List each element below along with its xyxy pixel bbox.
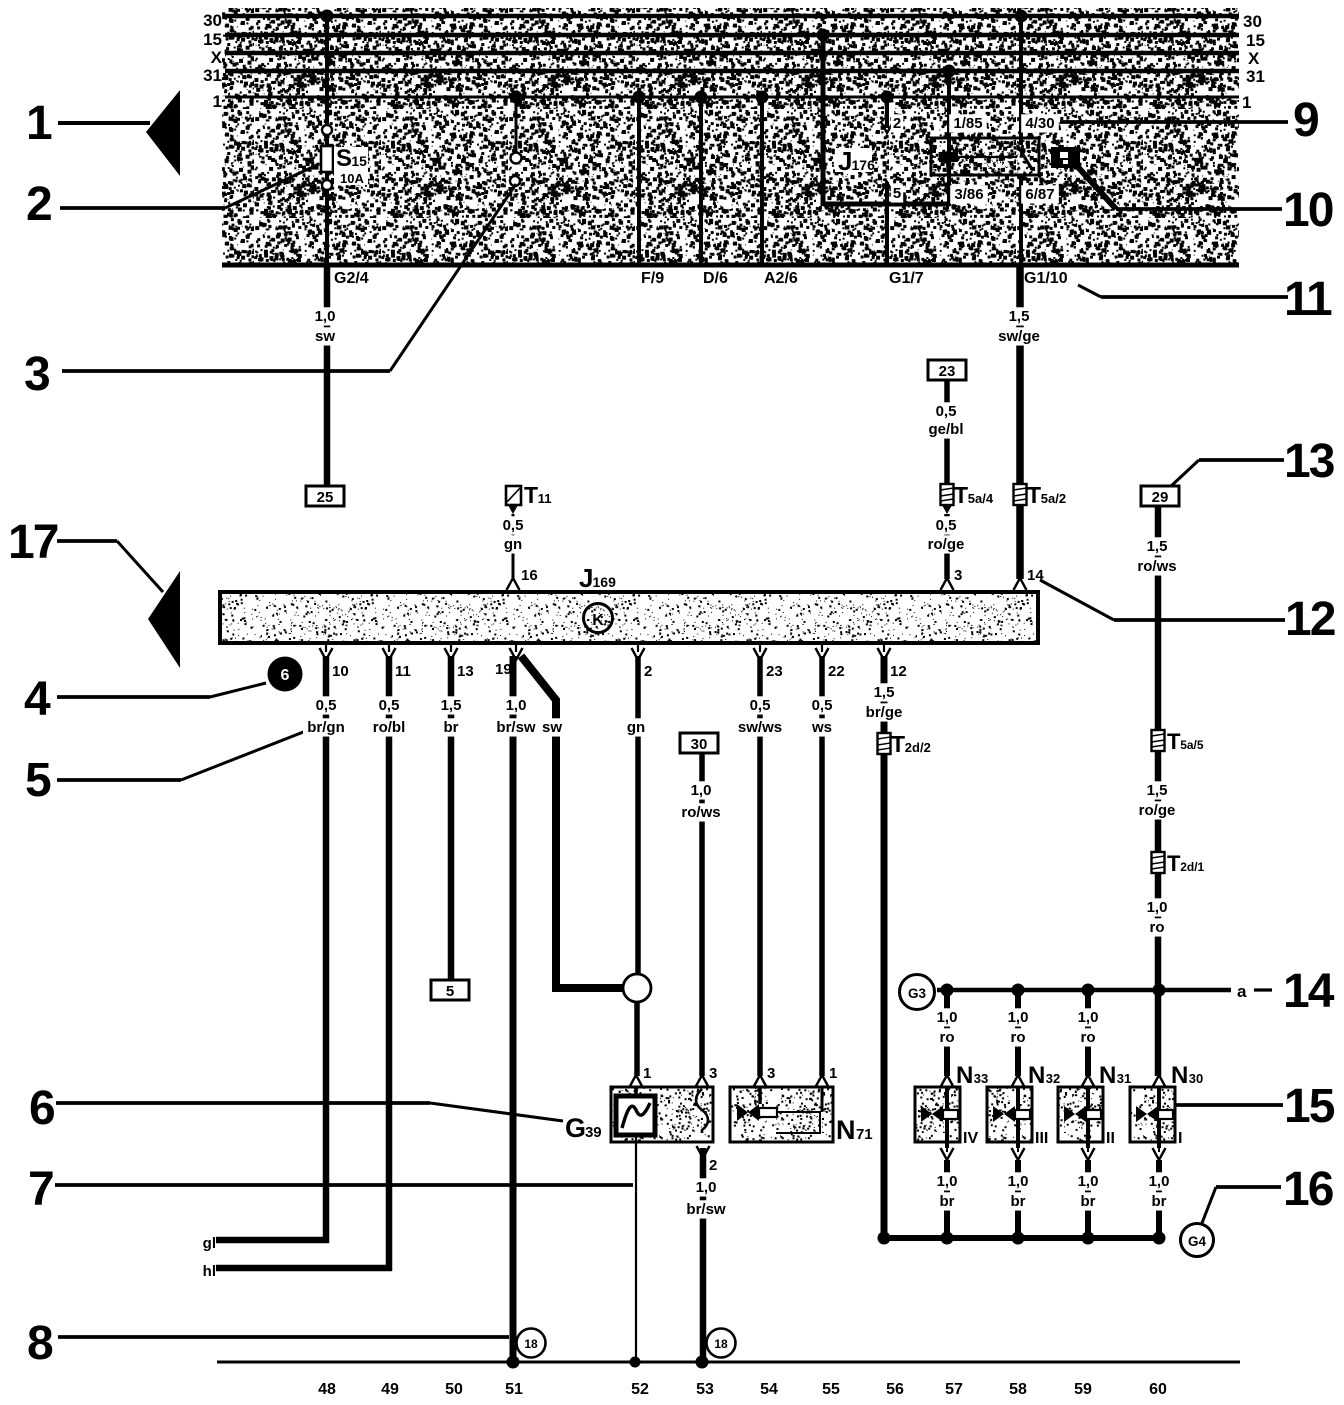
injector N33 cylinder 4 (944, 990, 950, 1076)
svg-text:1,5: 1,5 (1147, 538, 1168, 555)
svg-text:br/sw: br/sw (496, 719, 536, 736)
svg-text:3: 3 (767, 1065, 775, 1082)
svg-text:X: X (1248, 49, 1260, 68)
pin label 1/85 (949, 114, 987, 132)
svg-text:6: 6 (281, 667, 290, 684)
svg-text:gn: gn (627, 719, 645, 736)
earth reference G4 (1181, 1224, 1214, 1257)
svg-text:59: 59 (1074, 1381, 1092, 1398)
idle stabilisation valve N71 housing (730, 1087, 833, 1142)
junction on bus 1 at A2/6 (756, 91, 769, 104)
wire bus1 to plug connector (515, 97, 518, 153)
svg-text:ro/ge: ro/ge (928, 536, 965, 553)
relay J176 bracket (823, 202, 950, 207)
wire bus31 to relay pin 1/85 (947, 71, 951, 153)
junction on bus 1 at plug connector (510, 91, 523, 104)
svg-text:54: 54 (760, 1381, 778, 1398)
svg-text:II: II (1106, 1130, 1115, 1147)
svg-text:5: 5 (446, 983, 454, 1000)
svg-text:30: 30 (203, 11, 222, 30)
svg-text:15: 15 (351, 153, 367, 169)
svg-text:G1/10: G1/10 (1024, 270, 1068, 287)
svg-text:0,5: 0,5 (812, 697, 833, 714)
svg-text:0,5: 0,5 (316, 697, 337, 714)
svg-text:1,5: 1,5 (1009, 308, 1030, 325)
pin label 3/86 (950, 185, 988, 203)
svg-text:1,5: 1,5 (874, 684, 895, 701)
wire T5a/2 to J169 pin 14 (1016, 505, 1024, 579)
bus wire 30 (225, 14, 1239, 19)
label J176 (835, 148, 872, 172)
svg-text:IV: IV (963, 1130, 978, 1147)
svg-text:sw: sw (542, 719, 562, 736)
dash panel strip bottom edge (222, 263, 1239, 268)
junction G39 earth at rail (696, 1356, 709, 1369)
svg-text:60: 60 (1149, 1381, 1167, 1398)
svg-text:T: T (1027, 482, 1041, 508)
bus wire 15 (225, 33, 1239, 38)
svg-text:T: T (524, 482, 538, 508)
svg-text:39: 39 (585, 1124, 602, 1141)
svg-text:br: br (940, 1193, 955, 1210)
injector N30 cylinder 1 (1153, 1075, 1166, 1087)
pin 16 of J169 (507, 578, 520, 590)
svg-text:1: 1 (213, 92, 222, 111)
junction rail a N33 (941, 984, 954, 997)
svg-text:ro/ge: ro/ge (1139, 802, 1176, 819)
control unit J169 body (220, 592, 1038, 643)
svg-text:52: 52 (631, 1381, 649, 1398)
junction on bus 30 at S15 (321, 10, 334, 23)
connector T5a/4 (941, 484, 954, 505)
svg-text:10A: 10A (340, 171, 364, 186)
wire 0,5 ge/bl (944, 380, 950, 484)
plate 30 (680, 733, 718, 753)
callout 13 (1170, 460, 1199, 487)
svg-text:30: 30 (1243, 12, 1262, 31)
pin label 5 of J176 (881, 182, 894, 194)
injector supply rail a (937, 988, 1231, 993)
svg-text:N: N (1099, 1062, 1116, 1089)
svg-text:11: 11 (538, 491, 552, 506)
junction sensor wire at earth rail (630, 1357, 641, 1368)
svg-text:gl: gl (203, 1235, 216, 1252)
junction earth rail N32 (1012, 1232, 1025, 1245)
wire 1,0 br/sw G39 to track 53 (700, 1148, 707, 1362)
pin 12 of J169 (883, 643, 885, 652)
fuse S15 upper contact (322, 125, 332, 135)
pin 11 of J169 (388, 643, 390, 652)
wire 1,5 sw/ge from G1/10 (1016, 265, 1024, 484)
wire J176 pin 5 to terminal G1/7 (885, 182, 889, 265)
junction rail a N32 (1012, 984, 1025, 997)
svg-text:1,0: 1,0 (1149, 1173, 1170, 1190)
lambda probe plug connection (623, 974, 651, 1002)
svg-text:T: T (1167, 729, 1181, 754)
svg-text:169: 169 (593, 574, 617, 590)
pin 3 of J169 (941, 578, 954, 590)
svg-text:br: br (1152, 1193, 1167, 1210)
fuse S15 (321, 146, 333, 172)
svg-text:S: S (336, 145, 352, 172)
svg-text:51: 51 (505, 1381, 523, 1398)
connector T5a/2 (1014, 484, 1027, 505)
wire 0,5 ro/bl pin11 to hl (386, 656, 393, 1271)
wire 1,0 br/sw pin19 to track 51 (510, 656, 517, 1362)
relay J176 switch blade (1017, 145, 1032, 169)
svg-text:ro: ro (1081, 1029, 1096, 1046)
svg-text:17: 17 (8, 516, 58, 569)
svg-text:ro/ws: ro/ws (681, 804, 720, 821)
svg-text:31: 31 (203, 66, 222, 85)
svg-text:a: a (1237, 982, 1247, 1001)
svg-text:br/ge: br/ge (866, 704, 903, 721)
wire bus1 to terminal A2/6 (760, 97, 764, 265)
svg-text:N: N (1028, 1062, 1045, 1089)
relay J176 coil link (958, 156, 1017, 158)
junction on bus 1 at G1/7 (881, 91, 894, 104)
svg-text:X: X (211, 48, 223, 67)
svg-text:3/86: 3/86 (954, 186, 983, 203)
svg-text:9: 9 (1293, 94, 1320, 147)
connection marker (item 10) (1051, 147, 1080, 168)
svg-text:III: III (1035, 1130, 1048, 1147)
svg-text:1: 1 (1242, 93, 1251, 112)
svg-text:5a/2: 5a/2 (1041, 491, 1066, 506)
svg-text:2d/2: 2d/2 (905, 740, 931, 755)
pin 3 of N71 (754, 1075, 767, 1087)
svg-text:D/6: D/6 (703, 270, 728, 287)
svg-text:1/85: 1/85 (953, 115, 982, 132)
marker leader line (1077, 166, 1116, 209)
svg-text:ro: ro (1150, 919, 1165, 936)
svg-text:23: 23 (939, 363, 956, 380)
relay J176 housing (931, 138, 1039, 175)
wire 0,5 br/gn pin10 to gl (323, 656, 330, 1243)
svg-text:15: 15 (203, 30, 222, 49)
junction on bus 31 feeding J176 pin 1/85 (943, 65, 956, 78)
svg-text:11: 11 (1284, 273, 1332, 326)
svg-text:2: 2 (893, 115, 901, 132)
svg-text:0,5: 0,5 (750, 697, 771, 714)
svg-text:30: 30 (691, 736, 708, 753)
svg-text:br/gn: br/gn (307, 719, 345, 736)
marker 6 on J169 (268, 657, 303, 692)
svg-text:23: 23 (766, 663, 783, 680)
wire relay pin 3/86 to bracket (947, 162, 951, 206)
pin 19 of J169 (515, 643, 517, 652)
svg-text:J: J (579, 563, 593, 593)
svg-text:2: 2 (26, 178, 53, 231)
pin 10 of J169 (325, 643, 327, 652)
wire 1,5 ro/ge (1155, 751, 1162, 852)
svg-text:2: 2 (644, 663, 652, 680)
svg-text:ro: ro (1011, 1029, 1026, 1046)
current track rail (217, 1361, 1240, 1364)
wire br/ge to injector earth rail (881, 754, 888, 1238)
wire 1,5 br pin13 to plate 5 (448, 656, 455, 980)
valve symbol in N71 (758, 1087, 762, 1104)
pin label 6/87 (1021, 185, 1059, 203)
wire 1,0 sw from G2/4 to plate 25 (324, 265, 331, 488)
svg-text:13: 13 (1284, 435, 1334, 488)
pin label 4/30 (1021, 114, 1059, 132)
svg-text:I: I (1178, 1130, 1182, 1147)
svg-text:sw/ge: sw/ge (998, 328, 1040, 345)
wire 1,5 ro/ws (1155, 506, 1162, 730)
svg-text:71: 71 (856, 1126, 873, 1143)
dash panel connector strip (222, 8, 1239, 267)
wire sw heater branch (521, 656, 624, 988)
svg-text:58: 58 (1009, 1381, 1027, 1398)
svg-text:sw: sw (315, 328, 335, 345)
heater element in G39 (696, 1089, 708, 1133)
plate 23 (928, 360, 966, 380)
svg-text:3: 3 (24, 348, 51, 401)
svg-text:2d/1: 2d/1 (1180, 860, 1204, 874)
connector T2d/1 (1152, 852, 1165, 873)
wire bus1 to terminal F/9 (637, 97, 641, 265)
pin 3 of G39 (696, 1075, 709, 1087)
svg-text:ro/ws: ro/ws (1137, 558, 1176, 575)
relay J176 supply wire from bus 15 (821, 35, 826, 206)
junction on bus 30 feeding J176 pin 4/30 (1015, 10, 1028, 23)
svg-text:57: 57 (945, 1381, 963, 1398)
svg-text:18: 18 (714, 1337, 728, 1351)
svg-text:3: 3 (954, 567, 962, 584)
svg-text:32: 32 (1046, 1071, 1060, 1086)
svg-text:18: 18 (524, 1337, 538, 1351)
svg-text:1: 1 (26, 97, 53, 150)
svg-text:sw/ws: sw/ws (738, 719, 782, 736)
svg-text:1,0: 1,0 (1147, 899, 1168, 916)
svg-text:176: 176 (852, 157, 876, 173)
pin 13 of J169 (450, 643, 452, 652)
svg-text:0,5: 0,5 (503, 517, 524, 534)
callout 10 (1116, 207, 1282, 211)
svg-text:2: 2 (709, 1157, 717, 1174)
svg-text:0,5: 0,5 (379, 697, 400, 714)
svg-text:0,5: 0,5 (936, 517, 957, 534)
bus wire X (225, 51, 1239, 56)
svg-text:ro: ro (940, 1029, 955, 1046)
svg-text:30: 30 (1189, 1071, 1203, 1086)
bus wire 1 (225, 96, 1239, 99)
svg-text:6/87: 6/87 (1025, 186, 1054, 203)
svg-text:br: br (1011, 1193, 1026, 1210)
svg-text:56: 56 (886, 1381, 904, 1398)
plug connector upper half (511, 153, 522, 164)
callout 12 (1040, 580, 1114, 620)
svg-text:31: 31 (1117, 1071, 1131, 1086)
svg-text:G: G (565, 1113, 586, 1143)
injector earth rail (884, 1235, 1162, 1241)
pin 23 of J169 (759, 643, 761, 652)
svg-text:1,0: 1,0 (1008, 1009, 1029, 1026)
earth plate 25 (306, 486, 344, 506)
svg-text:12: 12 (890, 663, 907, 680)
svg-text:G2/4: G2/4 (334, 270, 369, 287)
svg-text:5a/4: 5a/4 (968, 491, 994, 506)
svg-text:25: 25 (317, 489, 334, 506)
joint 18 on G39 earth wire (707, 1329, 736, 1358)
wire 0,5 ro/ge to J169 pin 3 (944, 514, 950, 579)
lambda probe G39 housing (611, 1087, 713, 1142)
svg-text:15: 15 (1284, 1080, 1335, 1133)
svg-text:53: 53 (696, 1381, 714, 1398)
svg-text:49: 49 (381, 1381, 399, 1398)
svg-text:1,0: 1,0 (506, 697, 527, 714)
svg-text:5: 5 (25, 754, 52, 807)
wire 0,5 ws pin22 to N71 (819, 656, 825, 1076)
svg-text:1,0: 1,0 (315, 308, 336, 325)
wire relay pin 6/87 to terminal G1/10 (1019, 175, 1023, 265)
svg-text:N: N (836, 1115, 856, 1145)
wire fuse S15 to terminal G2/4 (325, 172, 329, 265)
svg-text:16: 16 (1283, 1163, 1333, 1216)
joint 18 on pin19 wire (517, 1329, 546, 1358)
svg-text:N: N (1171, 1062, 1188, 1089)
injector N32 cylinder 3 (1015, 990, 1021, 1076)
relay J176 coil (939, 152, 958, 162)
wire 0,5 gn to J169 pin 16 (512, 514, 515, 579)
junction rail a N31 (1082, 984, 1095, 997)
wire gn pin2 to lambda probe (635, 656, 641, 975)
svg-text:G4: G4 (1188, 1234, 1207, 1249)
svg-text:gn: gn (504, 536, 522, 553)
camshaft reference G3 (900, 975, 935, 1010)
callout 14 node a (1165, 988, 1231, 992)
svg-text:31: 31 (1246, 67, 1265, 86)
svg-text:1,0: 1,0 (1008, 1173, 1029, 1190)
pin label 2 of J176 (891, 114, 903, 132)
svg-text:1,0: 1,0 (1078, 1173, 1099, 1190)
K-diagnosis symbol (584, 604, 613, 633)
callout 16 (1216, 1185, 1281, 1189)
connector T11 (506, 486, 521, 505)
wire bus30 to fuse S15 (325, 16, 329, 146)
svg-text:10: 10 (1283, 184, 1333, 237)
svg-text:14: 14 (1027, 567, 1044, 584)
svg-text:1: 1 (643, 1065, 651, 1082)
svg-text:ws: ws (811, 719, 832, 736)
svg-text:1,0: 1,0 (691, 782, 712, 799)
sensor signal wire (635, 1135, 637, 1362)
junction earth rail N31 (1082, 1232, 1095, 1245)
junction on bus 15 feeding J176 (817, 29, 830, 42)
wire bus1 to J176 pin 2 (885, 97, 889, 128)
fuse S15 lower contact (322, 180, 332, 190)
svg-text:T: T (954, 482, 968, 508)
callout 9 (1060, 120, 1288, 124)
pin 2 of G39 (697, 1146, 710, 1158)
svg-text:11: 11 (395, 663, 411, 680)
svg-text:48: 48 (318, 1381, 336, 1398)
pin 22 of J169 (821, 643, 823, 652)
lambda sensor cell (634, 1087, 638, 1098)
svg-text:F/9: F/9 (641, 270, 664, 287)
svg-text:T: T (891, 731, 905, 757)
plate 5 (431, 980, 469, 1000)
svg-text:1: 1 (829, 1065, 837, 1082)
svg-text:1,0: 1,0 (1078, 1009, 1099, 1026)
svg-text:5a/5: 5a/5 (1180, 738, 1204, 752)
svg-text:22: 22 (828, 663, 845, 680)
svg-text:50: 50 (445, 1381, 463, 1398)
svg-text:6: 6 (29, 1082, 56, 1135)
svg-text:29: 29 (1152, 489, 1169, 506)
svg-text:1,0: 1,0 (937, 1009, 958, 1026)
junction earth rail pin12 wire (878, 1232, 891, 1245)
callout 11 (1078, 285, 1101, 297)
callout 15 (1176, 1103, 1283, 1107)
wire 1,0 ro to N30 (1155, 873, 1162, 1076)
junction rail a N30 (1153, 984, 1166, 997)
svg-text:4/30: 4/30 (1025, 115, 1054, 132)
svg-text:10: 10 (332, 663, 349, 680)
svg-text:ge/bl: ge/bl (928, 421, 963, 438)
pin 1 of G39 (630, 1075, 643, 1087)
pin 1 of N71 (816, 1075, 829, 1087)
pin 2 of J169 (637, 643, 639, 652)
svg-text:55: 55 (822, 1381, 840, 1398)
junction earth rail N30 (1153, 1232, 1166, 1245)
injector N31 cylinder 2 (1085, 990, 1091, 1076)
svg-text:br/sw: br/sw (686, 1201, 726, 1218)
wire 1,0 ro/ws to G39 pin 3 (699, 753, 705, 1076)
wire bus30 to relay pin 4/30 (1019, 16, 1023, 145)
svg-text:ro/bl: ro/bl (373, 719, 406, 736)
wire 0,5 sw/ws pin23 to N71 (757, 656, 763, 1076)
connector T2d/2 (878, 733, 891, 754)
svg-text:3: 3 (709, 1065, 717, 1082)
svg-text:15: 15 (1246, 31, 1265, 50)
plug connector lower half (510, 176, 520, 186)
junction pin19 wire at earth rail (507, 1356, 520, 1369)
label S15 10A (334, 147, 368, 185)
pin 14 of J169 (1014, 578, 1027, 590)
connector T5a/5 (1152, 730, 1165, 751)
wire bus1 to terminal D/6 (699, 97, 703, 265)
svg-text:G3: G3 (908, 986, 927, 1001)
svg-text:1,0: 1,0 (696, 1179, 717, 1196)
svg-text:N: N (956, 1062, 973, 1089)
bus wire 31 (225, 69, 1239, 74)
svg-text:br: br (1081, 1193, 1096, 1210)
svg-text:T: T (1167, 851, 1181, 876)
svg-text:K: K (592, 612, 604, 629)
svg-text:hl: hl (203, 1263, 216, 1280)
svg-text:1,0: 1,0 (937, 1173, 958, 1190)
svg-text:J: J (838, 146, 852, 176)
junction on bus 1 at F/9 (633, 91, 646, 104)
junction on bus 1 at D/6 (695, 91, 708, 104)
svg-text:7: 7 (28, 1163, 55, 1216)
plate 29 (1141, 486, 1179, 506)
svg-text:1,5: 1,5 (441, 697, 462, 714)
svg-text:A2/6: A2/6 (764, 270, 798, 287)
svg-text:br: br (444, 719, 459, 736)
wire 1,5 br/ge pin12 (881, 656, 888, 733)
svg-text:5: 5 (893, 185, 901, 202)
svg-text:4: 4 (24, 673, 51, 726)
svg-text:16: 16 (521, 567, 538, 584)
svg-text:33: 33 (974, 1071, 988, 1086)
svg-text:19: 19 (495, 661, 512, 678)
junction earth rail N33 (941, 1232, 954, 1245)
svg-text:13: 13 (457, 663, 474, 680)
svg-text:1,5: 1,5 (1147, 782, 1168, 799)
